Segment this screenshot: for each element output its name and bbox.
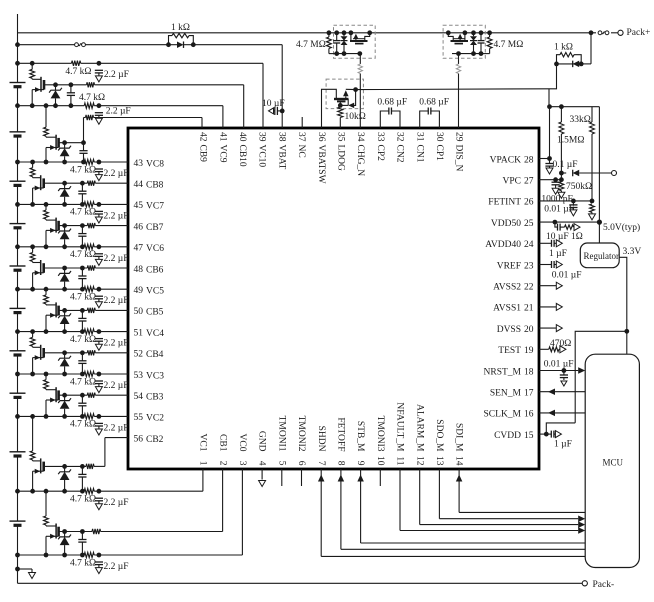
wire pin 20 to ground arrow xyxy=(539,325,562,332)
capacitor across Q6 xyxy=(78,266,86,292)
svg-text:56: 56 xyxy=(134,434,144,444)
svg-text:TMONI1: TMONI1 xyxy=(276,416,286,452)
capacitor 0.68 uF across pins 31-30 xyxy=(420,108,440,129)
svg-text:41: 41 xyxy=(217,132,227,142)
wire VPACK pullup xyxy=(549,107,551,159)
svg-text:VBATSW: VBATSW xyxy=(316,145,326,184)
capacitor across Q4 xyxy=(78,350,86,376)
capacitor 0.01 uF on NRST_M xyxy=(560,371,568,387)
wire CB8 line with series resistor xyxy=(44,181,128,186)
svg-text:VDD50: VDD50 xyxy=(491,219,521,229)
svg-text:4.7 kΩ: 4.7 kΩ xyxy=(70,250,96,260)
wire VC6 tap line xyxy=(18,244,129,249)
svg-text:4.7 kΩ: 4.7 kΩ xyxy=(79,93,105,103)
wire pin 26 FETINT xyxy=(539,199,594,204)
svg-text:CB7: CB7 xyxy=(146,223,164,233)
wire Pack+ top rail xyxy=(18,32,592,34)
capacitor across Q1 xyxy=(78,529,86,557)
wire pin 28 VPACK xyxy=(539,156,552,161)
svg-text:15: 15 xyxy=(524,431,534,441)
capacitor in right block xyxy=(478,30,485,56)
svg-text:49: 49 xyxy=(134,286,144,296)
wire pin 18 NRST_M to MCU xyxy=(539,367,585,374)
wire 3.3V to CVDD branch xyxy=(575,331,627,423)
svg-text:0.68 µF: 0.68 µF xyxy=(377,98,407,108)
svg-text:0.01 µF: 0.01 µF xyxy=(544,360,574,370)
zener diode D5 xyxy=(44,289,49,304)
svg-text:0.01 µF: 0.01 µF xyxy=(552,271,582,281)
svg-text:48: 48 xyxy=(134,265,144,275)
wire pin 8 to MCU xyxy=(338,469,586,549)
svg-text:CN1: CN1 xyxy=(414,145,424,163)
wire CB4 line with series resistor xyxy=(44,350,128,355)
svg-text:5: 5 xyxy=(276,461,286,466)
zener diode D9 xyxy=(44,106,49,137)
svg-text:SEN_M: SEN_M xyxy=(490,389,522,399)
wire pin 24 AVDD40 xyxy=(539,240,562,247)
svg-text:35: 35 xyxy=(336,132,346,142)
wire VC5 tap line xyxy=(18,287,129,292)
MOSFET Q discharge in right block xyxy=(446,30,468,43)
MOSFET Q charge in left block xyxy=(349,30,373,43)
wire VC1 tap line to pin 1 xyxy=(18,469,203,494)
svg-text:CHG_N: CHG_N xyxy=(355,145,365,177)
svg-text:27: 27 xyxy=(524,177,534,187)
wire pin 21 to ground arrow xyxy=(539,303,562,310)
protection FET block (dashed) xyxy=(334,25,376,58)
wire pin 13 to MCU xyxy=(439,469,585,522)
svg-text:19: 19 xyxy=(524,346,534,356)
battery cell B1 xyxy=(10,521,26,525)
svg-text:23: 23 xyxy=(524,261,534,271)
svg-text:38: 38 xyxy=(276,132,286,142)
svg-text:1 µF: 1 µF xyxy=(549,249,567,259)
svg-text:NFAULT_M: NFAULT_M xyxy=(395,402,405,452)
rail tap junction xyxy=(15,244,20,249)
svg-text:CP2: CP2 xyxy=(375,145,385,162)
svg-text:6: 6 xyxy=(296,461,306,466)
svg-text:FETOFF: FETOFF xyxy=(336,417,346,451)
wire pin 12 to MCU xyxy=(420,469,586,528)
svg-text:GND: GND xyxy=(257,431,267,452)
pin 5 stub xyxy=(281,469,283,486)
svg-text:25: 25 xyxy=(524,219,534,229)
svg-text:VBAT: VBAT xyxy=(276,145,286,170)
resistor R 4.7k on VC8 xyxy=(95,160,103,181)
wire pin 17 from MCU xyxy=(539,388,585,395)
wire CB1 line to pin 2 xyxy=(59,469,223,534)
battery cell B10 xyxy=(10,83,26,87)
rail tap junction xyxy=(15,287,20,292)
MOSFET Q3 in LDO block xyxy=(334,87,358,108)
svg-text:VC4: VC4 xyxy=(146,329,164,339)
svg-text:2.2 µF: 2.2 µF xyxy=(104,498,129,508)
svg-text:3: 3 xyxy=(237,461,247,466)
resistor 4.7 MOhm (left block) xyxy=(327,30,337,53)
rail tap junction xyxy=(15,61,20,66)
battery cell B7 xyxy=(10,224,26,228)
pin 10 stub xyxy=(379,469,381,486)
svg-text:55: 55 xyxy=(134,413,144,423)
rail tap junction xyxy=(15,160,20,165)
svg-text:4.7 MΩ: 4.7 MΩ xyxy=(296,40,326,50)
capacitor 10uF and resistor 1 Ohm branch xyxy=(555,222,580,231)
wire pin 22 to ground arrow xyxy=(539,282,562,289)
wire DIS_N with break mark xyxy=(458,54,460,128)
wire CB7 line with series resistor xyxy=(59,223,128,228)
resistor R 4.7k on VC3 xyxy=(95,372,103,393)
wire VC2 tap line xyxy=(18,414,129,419)
svg-text:54: 54 xyxy=(134,392,144,402)
diode charger detect xyxy=(559,170,617,177)
svg-text:Pack-: Pack- xyxy=(593,580,615,590)
resistor R 4.7k on VC6 xyxy=(95,244,103,265)
capacitor 0.1 uF on VPACK xyxy=(545,159,553,175)
svg-text:0.01 µF: 0.01 µF xyxy=(544,205,574,215)
MCU U3 xyxy=(585,354,639,567)
svg-text:22: 22 xyxy=(524,283,534,293)
svg-text:STB_M: STB_M xyxy=(355,421,365,452)
wire VC3 tap line xyxy=(18,371,129,376)
resistor 33 kOhm xyxy=(590,107,595,202)
svg-text:2.2 µF: 2.2 µF xyxy=(104,211,129,221)
svg-text:1 kΩ: 1 kΩ xyxy=(554,43,573,53)
svg-text:13: 13 xyxy=(434,456,444,466)
svg-text:2.2 µF: 2.2 µF xyxy=(104,254,129,264)
zener diode D4 xyxy=(30,332,35,347)
svg-text:45: 45 xyxy=(134,201,144,211)
rail tap junction xyxy=(15,202,20,207)
wire pin 11 to MCU xyxy=(400,469,585,534)
svg-text:DVSS: DVSS xyxy=(497,325,521,335)
svg-text:AVSS2: AVSS2 xyxy=(493,283,521,293)
svg-text:17: 17 xyxy=(524,389,534,399)
svg-text:30: 30 xyxy=(434,132,444,142)
svg-text:2.2 µF: 2.2 µF xyxy=(104,381,129,391)
resistor 750 kOhm on VPC xyxy=(558,182,565,199)
svg-text:2.2 µF: 2.2 µF xyxy=(104,169,129,179)
svg-text:2.2 µF: 2.2 µF xyxy=(104,296,129,306)
resistor 4.7k / cap 2.2uF on VC10 xyxy=(95,61,103,82)
svg-text:1000 pF: 1000 pF xyxy=(541,195,572,205)
svg-text:DIS_N: DIS_N xyxy=(454,145,464,172)
svg-text:42: 42 xyxy=(198,132,208,142)
wire Pack+ sense to VPACK node xyxy=(549,64,557,89)
wire pin 23 VREF xyxy=(539,261,562,268)
svg-text:TMONI3: TMONI3 xyxy=(375,416,385,452)
pin 4 GND ground arrow xyxy=(259,469,266,487)
wire VC9 tap line to pin 41 xyxy=(18,103,223,128)
resistor 1.5 MOhm xyxy=(559,107,564,180)
wire CB3 line with series resistor xyxy=(59,393,128,398)
resistor on FETINT to ground xyxy=(589,204,596,220)
svg-text:VREF: VREF xyxy=(497,261,521,271)
battery cell B9 xyxy=(10,132,26,136)
svg-text:CB5: CB5 xyxy=(146,308,164,318)
zener diode D6 xyxy=(30,247,35,262)
zener diode D2 xyxy=(30,416,35,460)
capacitor across Q8 xyxy=(78,181,86,207)
IC U1 battery monitor body xyxy=(128,128,539,469)
svg-text:4.7 MΩ: 4.7 MΩ xyxy=(494,40,524,50)
svg-text:VC6: VC6 xyxy=(146,244,164,254)
resistor 4.7k / cap 2.2uF on VC2 xyxy=(95,414,103,435)
svg-text:4.7 kΩ: 4.7 kΩ xyxy=(70,335,96,345)
battery stack positive rail xyxy=(17,14,19,569)
svg-text:VC3: VC3 xyxy=(146,371,164,381)
svg-text:LDOG: LDOG xyxy=(336,145,346,172)
svg-text:4.7 kΩ: 4.7 kΩ xyxy=(70,420,96,430)
wire 5V to regulator xyxy=(598,107,600,243)
resistor 4.7k / cap 2.2uF on VC1 xyxy=(95,489,103,510)
svg-text:TEST: TEST xyxy=(498,346,521,356)
svg-text:5.0V(typ): 5.0V(typ) xyxy=(603,222,640,233)
svg-text:1 kΩ: 1 kΩ xyxy=(171,23,190,33)
svg-text:VC7: VC7 xyxy=(146,202,164,212)
svg-text:CN2: CN2 xyxy=(395,145,405,163)
svg-text:CB6: CB6 xyxy=(146,265,164,275)
capacitor across Q7 xyxy=(78,223,86,249)
wire CHG_N with break mark xyxy=(359,54,361,128)
svg-text:Pack+: Pack+ xyxy=(627,28,651,38)
capacitor across Q3 xyxy=(78,393,86,419)
svg-text:VC10: VC10 xyxy=(257,145,267,168)
wire from LDO block to VPACK node xyxy=(356,88,549,91)
svg-text:1: 1 xyxy=(198,461,208,466)
svg-text:2.2 µF: 2.2 µF xyxy=(104,70,129,80)
svg-text:4: 4 xyxy=(257,461,267,466)
svg-text:2.2 µF: 2.2 µF xyxy=(106,107,131,117)
svg-text:VPC: VPC xyxy=(503,177,521,187)
protection FET block 2 (dashed) xyxy=(443,25,485,58)
resistor 4.7 MOhm (right block) xyxy=(481,30,492,53)
svg-text:VC5: VC5 xyxy=(146,287,164,297)
TVS diode in right block xyxy=(470,30,477,56)
resistor 470 Ohm on TEST pin 19 xyxy=(539,346,566,353)
wire pin 7 to MCU xyxy=(318,469,585,556)
wire VBAT line xyxy=(15,42,168,47)
wire VC10 tap line to pin 39 xyxy=(18,61,264,128)
svg-text:CVDD: CVDD xyxy=(494,431,521,441)
svg-text:CB10: CB10 xyxy=(237,145,247,167)
svg-text:7: 7 xyxy=(316,461,326,466)
wire CB5 line with series resistor xyxy=(59,308,128,313)
svg-text:ALARM_M: ALARM_M xyxy=(414,404,424,452)
wire VBATSW to pin 36 xyxy=(322,89,337,128)
svg-text:0.1 µF: 0.1 µF xyxy=(553,160,578,170)
wire VBAT to pin 38 xyxy=(193,45,282,128)
regulator U2 xyxy=(580,243,619,268)
capacitor across Q10 xyxy=(67,82,75,108)
svg-text:53: 53 xyxy=(134,371,144,381)
svg-text:VPACK: VPACK xyxy=(490,155,521,165)
ground arrow at stack bottom xyxy=(15,567,35,579)
wire VC4 tap line xyxy=(18,329,129,334)
svg-text:18: 18 xyxy=(524,367,534,377)
wire pin 9 to MCU xyxy=(357,469,585,543)
svg-text:26: 26 xyxy=(524,198,534,208)
wire CVDD to 3.3V rail xyxy=(546,423,575,434)
svg-text:VC2: VC2 xyxy=(146,414,164,424)
resistor R 4.7k on VC5 xyxy=(95,287,103,308)
TVS diode in left block xyxy=(341,30,348,56)
svg-text:10: 10 xyxy=(375,456,385,466)
capacitor across Q9 xyxy=(79,140,87,164)
svg-text:NRST_M: NRST_M xyxy=(484,367,522,377)
svg-text:47: 47 xyxy=(134,244,144,254)
svg-text:14: 14 xyxy=(454,456,464,466)
svg-text:AVSS1: AVSS1 xyxy=(493,304,521,314)
LDO FET block (dashed) xyxy=(326,79,363,109)
rail tap junction xyxy=(15,372,20,377)
capacitor 1000 pF on VPC xyxy=(552,180,560,195)
svg-text:51: 51 xyxy=(134,328,144,338)
svg-text:CB8: CB8 xyxy=(146,181,164,191)
svg-text:CB1: CB1 xyxy=(217,434,227,452)
pin 37 NC stub xyxy=(301,117,303,128)
svg-text:4.7 kΩ: 4.7 kΩ xyxy=(70,165,96,175)
svg-text:2: 2 xyxy=(217,461,227,466)
svg-text:4.7 kΩ: 4.7 kΩ xyxy=(70,558,96,568)
svg-text:32: 32 xyxy=(395,132,405,142)
resistor 1 kOhm with parallel diode (Pack+) xyxy=(554,33,591,67)
resistor 10k to LDOG pin 35 xyxy=(338,101,349,128)
svg-text:29: 29 xyxy=(454,132,464,142)
left block source node wire xyxy=(337,51,362,56)
svg-text:CB9: CB9 xyxy=(198,145,208,163)
capacitor across Q5 xyxy=(78,308,86,334)
svg-text:33: 33 xyxy=(375,132,385,142)
resistor 4.7k / cap 2.2uF on VC0 xyxy=(95,553,103,574)
terminal Pack- xyxy=(582,581,587,586)
svg-text:34: 34 xyxy=(355,132,365,142)
capacitor 0.68 uF across pins 33-32 xyxy=(380,108,400,129)
wire battery negative to Pack- xyxy=(18,569,583,583)
svg-text:1 µF: 1 µF xyxy=(554,440,572,450)
svg-text:20: 20 xyxy=(524,325,534,335)
wire VC8 tap line xyxy=(18,159,129,164)
svg-text:50: 50 xyxy=(134,307,144,317)
svg-text:31: 31 xyxy=(414,132,424,142)
svg-text:Regulator: Regulator xyxy=(584,251,620,261)
zener diode D8 xyxy=(30,162,35,177)
rail tap junction xyxy=(15,553,20,558)
battery cell B5 xyxy=(10,308,26,312)
svg-text:2.2 µF: 2.2 µF xyxy=(104,339,129,349)
svg-text:AVDD40: AVDD40 xyxy=(485,240,521,250)
svg-text:1.5MΩ: 1.5MΩ xyxy=(557,136,584,146)
zener diode D1 xyxy=(44,491,49,525)
svg-text:SDO_M: SDO_M xyxy=(434,419,444,452)
svg-text:33kΩ: 33kΩ xyxy=(570,115,591,125)
svg-text:39: 39 xyxy=(257,132,267,142)
wire pin 16 from MCU xyxy=(539,410,585,417)
svg-text:24: 24 xyxy=(524,240,534,250)
svg-text:12: 12 xyxy=(414,456,424,466)
wire pin 14 to MCU xyxy=(456,469,585,512)
svg-text:4.7 kΩ: 4.7 kΩ xyxy=(70,208,96,218)
resistor 4.7k / cap 2.2uF on VC9 xyxy=(95,103,103,124)
svg-text:SHDN: SHDN xyxy=(316,426,326,452)
svg-text:0.68 µF: 0.68 µF xyxy=(419,98,449,108)
svg-text:470Ω: 470Ω xyxy=(550,339,571,349)
svg-text:FETINT: FETINT xyxy=(488,198,521,208)
svg-text:40: 40 xyxy=(237,132,247,142)
svg-text:21: 21 xyxy=(524,304,534,314)
svg-text:10 µF: 10 µF xyxy=(262,99,285,109)
pin 6 stub xyxy=(301,469,303,486)
svg-text:VC8: VC8 xyxy=(146,159,164,169)
rail tap junction xyxy=(15,414,20,419)
rail tap junction xyxy=(15,489,20,494)
svg-text:VC0: VC0 xyxy=(237,434,247,452)
battery cell B4 xyxy=(10,351,26,355)
fuse F1 xyxy=(75,43,86,47)
svg-text:52: 52 xyxy=(134,350,144,360)
wire pin 25 VDD50 to 5V node xyxy=(539,220,602,225)
capacitor 10 uF on VBAT xyxy=(269,107,285,115)
svg-text:VC9: VC9 xyxy=(217,145,227,163)
rail tap junction xyxy=(15,103,20,108)
zener diode D3 xyxy=(44,374,49,389)
wire regulator 3.3V output xyxy=(619,257,629,333)
wire pin 15 CVDD xyxy=(539,431,561,438)
svg-text:2.2 µF: 2.2 µF xyxy=(104,562,129,572)
svg-text:CB2: CB2 xyxy=(146,435,164,445)
svg-text:750kΩ: 750kΩ xyxy=(566,182,592,192)
battery cell B8 xyxy=(10,181,26,185)
svg-text:28: 28 xyxy=(524,155,534,165)
svg-text:1Ω: 1Ω xyxy=(571,232,583,242)
svg-text:CB3: CB3 xyxy=(146,393,164,403)
svg-text:36: 36 xyxy=(316,132,326,142)
resistor 1 kOhm with parallel diode xyxy=(166,33,196,48)
svg-text:CB4: CB4 xyxy=(146,350,164,360)
svg-text:3.3V: 3.3V xyxy=(623,247,642,257)
svg-text:SDI_M: SDI_M xyxy=(454,423,464,452)
svg-text:16: 16 xyxy=(524,410,534,420)
svg-text:9: 9 xyxy=(355,461,365,466)
svg-text:11: 11 xyxy=(395,456,405,465)
svg-text:43: 43 xyxy=(134,159,144,169)
rail tap junction xyxy=(15,329,20,334)
svg-text:SCLK_M: SCLK_M xyxy=(484,410,522,420)
wire pin 27 VPC xyxy=(539,177,564,182)
wire CB9 line to pin 42 xyxy=(59,115,202,143)
svg-text:8: 8 xyxy=(336,461,346,466)
wire VC0 tap line to pin 3 xyxy=(18,469,243,558)
svg-text:MCU: MCU xyxy=(603,458,624,468)
battery cell B6 xyxy=(10,266,26,270)
svg-text:4.7 kΩ: 4.7 kΩ xyxy=(70,377,96,387)
svg-text:37: 37 xyxy=(296,132,306,142)
svg-text:NC: NC xyxy=(296,145,306,158)
zener diode D7 xyxy=(44,204,49,219)
resistor R 4.7k on VC7 xyxy=(95,202,103,223)
wire 3.3V to MCU xyxy=(626,331,628,354)
wire CB6 line with series resistor xyxy=(44,265,128,270)
right block source node wire xyxy=(452,51,481,56)
wire VC7 tap line xyxy=(18,202,129,207)
svg-text:2.2 µF: 2.2 µF xyxy=(104,423,129,433)
capacitor in left block xyxy=(333,30,340,56)
zener diode D10 xyxy=(30,63,35,78)
battery cell B3 xyxy=(10,393,26,397)
node VPACK top line xyxy=(547,104,599,109)
svg-text:4.7 kΩ: 4.7 kΩ xyxy=(70,293,96,303)
svg-text:4.7 kΩ: 4.7 kΩ xyxy=(70,495,96,505)
svg-text:TMONI2: TMONI2 xyxy=(296,416,306,452)
